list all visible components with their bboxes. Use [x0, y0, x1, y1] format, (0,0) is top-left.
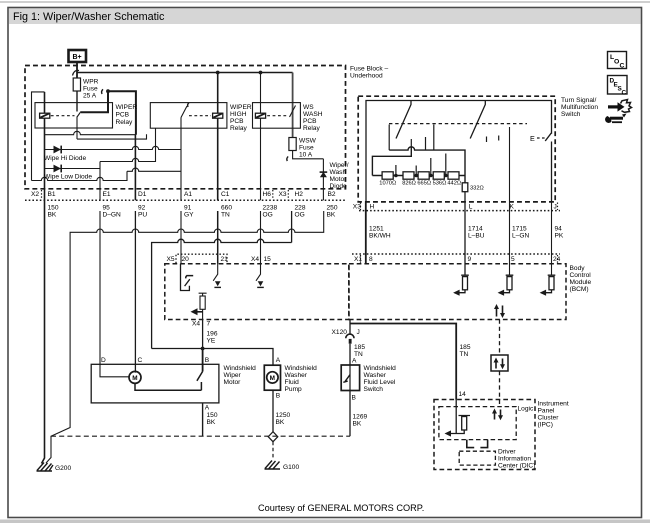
wire level switch B 1269BK down	[349, 391, 351, 436]
svg-text:BK: BK	[207, 419, 216, 426]
svg-text:Wiper: Wiper	[224, 372, 242, 379]
svg-text:C: C	[620, 63, 625, 70]
turn signal dashed box	[358, 96, 555, 202]
icon arrows	[608, 102, 625, 111]
wire H2 228OG down then left	[291, 211, 293, 243]
svg-text:WIPER: WIPER	[116, 104, 138, 111]
IPC outer dashed box	[434, 400, 535, 470]
svg-text:7: 7	[207, 321, 211, 328]
wire 185TN branch right to IPC	[350, 324, 456, 400]
relay U1 dashed link	[51, 115, 75, 117]
wire B1 150BK down to ground	[42, 200, 45, 463]
svg-text:Control: Control	[570, 272, 592, 279]
pin15 switch with arrow	[256, 264, 261, 281]
pin7 thermal element	[199, 293, 207, 296]
svg-text:X4: X4	[251, 256, 259, 263]
svg-text:1250: 1250	[276, 412, 291, 419]
svg-text:150: 150	[207, 412, 218, 419]
fuse WSW	[289, 138, 296, 151]
relay U3 WS WASH box	[253, 103, 301, 129]
connector row X2 dotted line	[25, 199, 346, 201]
svg-text:185: 185	[354, 344, 365, 351]
wire X4 pin7 196YE down	[202, 320, 204, 349]
svg-text:OG: OG	[263, 212, 273, 219]
resistor R 442	[448, 172, 459, 179]
hook contact mark K1	[102, 89, 103, 94]
wire fuse output to blade	[76, 91, 78, 112]
wire below blade	[76, 117, 78, 140]
svg-text:Cluster: Cluster	[538, 415, 560, 422]
svg-text:GY: GY	[184, 212, 194, 219]
svg-text:B: B	[205, 357, 210, 364]
wire C1 660TN down to pin21	[217, 211, 219, 264]
wire Wipe Hi diode row y=149.5	[45, 146, 182, 149]
relay U3 coil	[255, 113, 265, 118]
relay U2 WIPER HIGH box	[150, 103, 227, 129]
svg-text:BK: BK	[48, 212, 57, 219]
svg-text:20: 20	[182, 256, 190, 263]
svg-text:228: 228	[295, 205, 306, 212]
svg-text:Instrument: Instrument	[538, 401, 569, 408]
top hairline	[0, 1, 650, 3]
relay U1 coil	[40, 113, 50, 118]
svg-text:Motor: Motor	[330, 176, 348, 183]
svg-text:2238: 2238	[263, 205, 278, 212]
switch blade S2	[470, 101, 485, 139]
wire coil vertical B1	[44, 92, 46, 113]
svg-text:WS: WS	[303, 104, 314, 111]
svg-text:Body: Body	[570, 265, 586, 272]
svg-text:21: 21	[221, 256, 229, 263]
svg-text:M: M	[270, 375, 275, 382]
svg-text:9: 9	[468, 256, 472, 263]
svg-text:B: B	[352, 395, 357, 402]
svg-text:E1: E1	[103, 191, 111, 198]
wire L 1714LBU X3 to X1 to BCM	[464, 211, 466, 276]
level switch blade	[349, 365, 351, 391]
wire Wipe Low diode row y=168.5	[45, 168, 101, 170]
mechanical dashed link	[389, 123, 527, 125]
svg-text:Relay: Relay	[303, 125, 321, 132]
resistor values	[379, 180, 483, 191]
relay K3 blade	[290, 106, 296, 118]
svg-text:1714: 1714	[468, 226, 483, 233]
svg-text:Switch: Switch	[561, 111, 581, 118]
svg-text:BK: BK	[327, 212, 336, 219]
wire R2 y=139.1	[77, 134, 147, 139]
svg-text:Panel: Panel	[538, 408, 555, 415]
wire A1 vertical from blade	[180, 118, 182, 201]
svg-text:Relay: Relay	[230, 125, 248, 132]
svg-text:PK: PK	[555, 233, 564, 240]
svg-text:TN: TN	[221, 212, 230, 219]
wire B+ bus y=72.5	[77, 72, 293, 74]
wire 332 to L pin	[464, 192, 466, 211]
svg-text:10 A: 10 A	[299, 152, 313, 159]
svg-text:(BCM): (BCM)	[570, 286, 589, 293]
wire A1 91GY down to pin20	[180, 211, 182, 264]
svg-text:Fluid Level: Fluid Level	[364, 379, 396, 386]
svg-text:WSW: WSW	[299, 138, 317, 145]
bottom grey strip	[0, 520, 650, 523]
connector X5 dotted bracket	[176, 254, 227, 263]
wire coil left link	[32, 92, 45, 181]
svg-text:J: J	[554, 204, 557, 211]
wire H6 vertical (coil K3)	[260, 73, 262, 114]
svg-text:Wash: Wash	[330, 169, 347, 176]
wiper motor module dashed box	[165, 264, 349, 320]
wire thick feed to D1	[108, 91, 136, 135]
wire B2 250BK down then left y=232.3	[46, 211, 324, 463]
wire E1 vertical	[99, 162, 101, 201]
clip mark on B+ drop	[73, 70, 80, 75]
svg-text:H2: H2	[295, 191, 304, 198]
BCM dashed box	[349, 264, 566, 320]
resistor network top wire	[389, 147, 465, 183]
svg-text:B1: B1	[48, 191, 56, 198]
svg-text:91: 91	[184, 205, 192, 212]
wire level switch 185TN from BCM J pin	[349, 320, 351, 365]
DIC dashed box	[459, 451, 495, 465]
svg-text:Diode: Diode	[330, 183, 348, 190]
svg-text:Module: Module	[570, 279, 592, 286]
svg-text:442Ω: 442Ω	[447, 180, 461, 186]
resistor R 826	[403, 172, 414, 179]
wire D1 vertical	[134, 135, 136, 201]
svg-text:C: C	[622, 90, 627, 97]
svg-text:D–GN: D–GN	[103, 212, 122, 219]
arrows in serial data box	[494, 358, 506, 370]
fuse WPR	[73, 78, 80, 91]
splice diamond	[268, 432, 278, 442]
svg-text:X3: X3	[353, 204, 361, 211]
fuse block underhood dashed box	[25, 66, 346, 189]
svg-text:Underhood: Underhood	[350, 73, 383, 80]
connector row X3 dotted line	[359, 210, 560, 212]
svg-text:Multifunction: Multifunction	[561, 104, 598, 111]
relay U1 WIPER PCB box	[35, 103, 113, 128]
svg-text:Driver: Driver	[498, 449, 516, 456]
icon DESC box	[608, 76, 628, 95]
svg-text:BK: BK	[276, 419, 285, 426]
wire R6 y=171.3	[127, 168, 181, 171]
wire R4 y=161.5 E1 top	[100, 128, 156, 161]
svg-text:B2: B2	[328, 191, 336, 198]
svg-text:Logic: Logic	[518, 406, 534, 413]
svg-text:Windshield: Windshield	[224, 365, 257, 372]
svg-text:BK: BK	[353, 421, 362, 428]
junction dot 196YE	[201, 347, 205, 351]
relay U2 dashed link	[189, 115, 211, 117]
svg-text:YE: YE	[207, 338, 216, 345]
svg-text:X120: X120	[332, 329, 348, 336]
svg-text:X1: X1	[354, 256, 362, 263]
svg-text:WIPER: WIPER	[230, 104, 252, 111]
wire D1 92PU down to motor C	[134, 211, 136, 373]
svg-text:C: C	[138, 357, 143, 364]
svg-text:14: 14	[459, 391, 467, 398]
svg-text:C1: C1	[221, 191, 230, 198]
svg-text:D: D	[101, 357, 106, 364]
ground G100	[265, 461, 281, 470]
relay U3 dashed link	[267, 115, 287, 117]
svg-text:1070Ω: 1070Ω	[379, 180, 396, 186]
IPC load resistor	[450, 400, 471, 434]
svg-text:A: A	[276, 357, 281, 364]
switch blade S1	[396, 101, 411, 139]
svg-text:H6: H6	[263, 191, 272, 198]
svg-text:250: 250	[327, 205, 338, 212]
svg-text:660: 660	[221, 205, 232, 212]
wire 348.5 run to pump	[152, 349, 273, 365]
windshield wiper motor box	[91, 364, 219, 403]
X120 inline connector arc	[346, 334, 354, 338]
svg-text:Motor: Motor	[224, 379, 242, 386]
wire K 1715LGN to BCM	[509, 127, 511, 275]
svg-text:1715: 1715	[512, 226, 527, 233]
turn signal switch solid box	[366, 101, 552, 202]
svg-text:Windshield: Windshield	[285, 365, 318, 372]
resistor chain taps	[396, 154, 446, 176]
junction dots on chain	[394, 174, 398, 178]
diode wiper/wash motor	[320, 171, 328, 177]
svg-text:OG: OG	[295, 212, 305, 219]
battery B+ box	[69, 50, 87, 62]
svg-text:665Ω: 665Ω	[417, 180, 431, 186]
motor M1 circle	[129, 371, 141, 383]
junction dot bus C1	[216, 71, 220, 75]
relay K1 blade	[77, 112, 81, 118]
svg-text:Courtesy of GENERAL MOTORS COR: Courtesy of GENERAL MOTORS CORP.	[258, 503, 424, 513]
svg-text:A1: A1	[184, 191, 192, 198]
wire H6 2238OG down to pin15	[260, 211, 262, 264]
svg-text:Wipe Hi Diode: Wipe Hi Diode	[44, 155, 86, 162]
icon LOC box	[605, 52, 631, 124]
diode Wipe Low	[54, 165, 63, 173]
washer fluid level switch box	[341, 365, 359, 391]
svg-text:15: 15	[264, 256, 272, 263]
contact stub S1	[388, 125, 390, 151]
svg-text:WASH: WASH	[303, 111, 323, 118]
serial data box	[491, 355, 508, 371]
svg-text:536Ω: 536Ω	[433, 180, 447, 186]
wire motor B down	[202, 349, 204, 372]
svg-text:B: B	[276, 393, 281, 400]
svg-text:X2: X2	[31, 191, 39, 198]
wire J 94PK to BCM	[551, 201, 553, 275]
svg-text:Turn Signal/: Turn Signal/	[561, 97, 596, 104]
ground G200	[37, 463, 54, 472]
svg-text:Fuse: Fuse	[299, 145, 314, 152]
wire H 1251BKWH X3 to X1	[365, 201, 367, 264]
svg-text:92: 92	[138, 205, 146, 212]
wire H2 feed vertical (thick grey)	[292, 73, 294, 138]
relay K1 NO contact path (thick)	[81, 91, 108, 112]
svg-text:Wipe Low Diode: Wipe Low Diode	[44, 174, 92, 181]
IPC logic inner dashed box	[439, 407, 516, 440]
svg-text:X3: X3	[279, 191, 287, 198]
icon wrench	[605, 114, 626, 124]
svg-text:Relay: Relay	[116, 119, 134, 126]
wire C1 vertical (coil K2)	[217, 73, 219, 114]
wire B2 drop with diode	[322, 159, 324, 201]
DIC area	[459, 440, 495, 466]
E contact	[537, 137, 546, 139]
svg-text:L: L	[469, 204, 473, 211]
svg-text:25 A: 25 A	[83, 93, 97, 100]
connector row X1 dotted line	[352, 253, 560, 255]
svg-text:A: A	[352, 358, 357, 365]
logic to DIC link wires	[467, 440, 488, 448]
svg-text:HIGH: HIGH	[230, 111, 247, 118]
svg-text:Windshield: Windshield	[364, 365, 397, 372]
svg-text:X4: X4	[192, 321, 200, 328]
svg-text:Fluid: Fluid	[285, 379, 300, 386]
svg-text:150: 150	[48, 205, 59, 212]
svg-text:5: 5	[511, 256, 515, 263]
washer pump box	[264, 365, 280, 390]
pin21 switch with arrow	[213, 264, 218, 281]
svg-text:PU: PU	[138, 212, 147, 219]
wire R1 y=134.7	[45, 131, 136, 134]
svg-text:Pump: Pump	[285, 386, 303, 393]
junction dot bus H6	[259, 71, 263, 75]
junction dot relay K1 common	[106, 89, 110, 93]
svg-text:Fuse Block –: Fuse Block –	[350, 66, 388, 73]
svg-text:E: E	[530, 134, 535, 143]
BCM resistor loads with arrows	[453, 275, 555, 296]
wire pump B 1250BK down	[272, 391, 274, 432]
svg-text:8: 8	[369, 256, 373, 263]
wire B+ drop	[76, 62, 78, 78]
svg-text:332Ω: 332Ω	[470, 186, 484, 192]
svg-text:G100: G100	[283, 464, 299, 471]
svg-text:Switch: Switch	[364, 386, 384, 393]
svg-text:D1: D1	[138, 191, 147, 198]
svg-text:Information: Information	[498, 456, 531, 463]
svg-text:1251: 1251	[369, 226, 384, 233]
svg-text:L–BU: L–BU	[468, 233, 485, 240]
svg-text:G200: G200	[55, 465, 71, 472]
svg-text:K: K	[510, 204, 515, 211]
svg-text:J: J	[357, 329, 360, 336]
svg-text:X5: X5	[167, 256, 175, 263]
contact ticks	[486, 137, 488, 143]
wire E1 95DGN down to motor D	[100, 211, 130, 377]
svg-text:826Ω: 826Ω	[402, 180, 416, 186]
pin20 park switch	[181, 264, 190, 291]
resistor R 665	[418, 172, 429, 179]
svg-text:1269: 1269	[353, 414, 368, 421]
svg-text:94: 94	[555, 226, 563, 233]
svg-text:WPR: WPR	[83, 79, 99, 86]
svg-text:A: A	[205, 405, 210, 412]
arrows in IPC	[492, 409, 503, 421]
svg-text:M: M	[132, 375, 137, 382]
svg-text:Fuse: Fuse	[83, 86, 98, 93]
dotted ticks near X2 and X3 labels	[42, 190, 558, 263]
dashed wire to G100	[272, 442, 274, 459]
svg-text:Center (DIC): Center (DIC)	[498, 463, 535, 470]
svg-text:Fig 1: Wiper/Washer Schematic: Fig 1: Wiper/Washer Schematic	[13, 11, 165, 23]
resistor R 536	[433, 172, 444, 179]
wire motor A 150BK down	[202, 403, 204, 436]
wire WSW fuse to elbow	[293, 151, 324, 159]
motor park blade	[135, 372, 203, 391]
pump M2 circle	[267, 372, 278, 383]
serial data dashed link BCM to IPC	[499, 320, 501, 407]
svg-text:TN: TN	[460, 351, 469, 358]
svg-text:L–GN: L–GN	[512, 233, 529, 240]
wire 228OG run y=242.5 to x=151.6	[152, 239, 292, 348]
svg-text:B+: B+	[73, 54, 82, 61]
serial data arrows in BCM	[494, 304, 505, 318]
svg-text:PCB: PCB	[230, 118, 244, 125]
svg-text:O: O	[614, 59, 619, 66]
svg-text:H: H	[370, 204, 375, 211]
dashed splice bus y=436.2	[51, 435, 350, 437]
relay K2 blade	[181, 106, 187, 118]
svg-text:PCB: PCB	[116, 112, 130, 119]
diode Wipe Hi	[54, 146, 63, 154]
svg-text:BK/WH: BK/WH	[369, 233, 391, 240]
svg-text:95: 95	[103, 205, 111, 212]
resistor R 332 vertical	[462, 183, 468, 192]
resistor R 1070	[382, 172, 393, 179]
svg-text:Washer: Washer	[364, 372, 387, 379]
svg-text:Wiper/: Wiper/	[330, 162, 349, 169]
svg-text:24: 24	[553, 256, 561, 263]
wire R7 y=180.5	[32, 171, 128, 180]
svg-text:185: 185	[460, 344, 471, 351]
relay U2 coil	[213, 113, 223, 118]
svg-text:Washer: Washer	[285, 372, 308, 379]
svg-text:(IPC): (IPC)	[538, 422, 553, 429]
svg-text:PCB: PCB	[303, 118, 317, 125]
hook contact mark WSW	[287, 157, 288, 162]
resistor chain wire	[372, 175, 465, 177]
title bar	[9, 9, 641, 25]
network second wire	[372, 147, 411, 176]
arrow left from pin7 wire	[197, 311, 203, 313]
svg-text:196: 196	[207, 331, 218, 338]
hook contact mark K2	[188, 103, 189, 107]
